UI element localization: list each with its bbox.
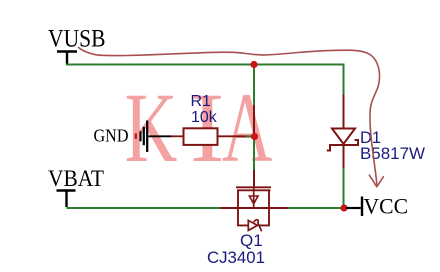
svg-text:VBAT: VBAT — [48, 166, 104, 191]
pin R1 left — [171, 135, 183, 137]
pin D1 top maroon — [343, 95, 345, 130]
power ground symbol — [141, 121, 172, 153]
power port VUSB — [57, 52, 77, 65]
annotation freehand arrow — [79, 48, 380, 185]
node junction top VUSB — [250, 61, 257, 68]
wire VUSB top horizontal — [66, 65, 344, 95]
transistor Q1 channel line — [237, 189, 271, 191]
pin R1 right — [218, 135, 247, 137]
diode D1 triangle — [332, 129, 355, 145]
svg-text:R1: R1 — [191, 93, 212, 110]
transistor Q1 body diode triangle — [248, 220, 257, 230]
wire left vertical green upper — [253, 65, 255, 106]
svg-text:GND: GND — [94, 126, 129, 146]
watermark KIA — [125, 72, 273, 184]
wire Q1 drain to VCC node — [288, 207, 341, 209]
transistor Q1 bulk line — [253, 188, 255, 208]
power port VCC bar — [361, 197, 363, 217]
svg-text:K: K — [125, 72, 178, 183]
node junction R1/gate — [251, 133, 258, 140]
wire R1 to node — [246, 135, 252, 137]
transistor Q1 right leg — [268, 190, 270, 208]
resistor R1 — [184, 128, 218, 145]
transistor Q1 left leg — [237, 190, 239, 208]
svg-text:VCC: VCC — [364, 194, 409, 219]
transistor Q1 body diode loop — [238, 208, 269, 225]
node junction VCC — [340, 204, 347, 211]
wire VBAT horizontal — [67, 207, 221, 209]
pin Q1 source — [220, 207, 288, 209]
diode D1 schottky bar — [327, 140, 358, 151]
svg-text:CJ3401: CJ3401 — [207, 248, 265, 267]
pin D1 bottom maroon — [343, 145, 345, 168]
ground red tick — [135, 133, 137, 139]
wire left vertical maroon to node — [253, 105, 255, 137]
svg-text:VUSB: VUSB — [48, 26, 106, 53]
wire left vertical green lower — [253, 137, 255, 171]
svg-text:A: A — [222, 72, 272, 183]
transistor Q1 gate plate — [236, 186, 271, 188]
svg-text:B5817W: B5817W — [360, 144, 425, 163]
power port VBAT — [57, 191, 76, 208]
pin Q1 gate maroon — [253, 170, 255, 188]
wire VCC port black — [346, 207, 361, 209]
annotation arrowhead — [369, 175, 383, 187]
wire D1 to VCC node — [343, 168, 345, 206]
transistor Q1 body diode cathode — [254, 220, 262, 232]
svg-text:10k: 10k — [191, 109, 218, 126]
transistor Q1 arrow — [249, 196, 258, 204]
